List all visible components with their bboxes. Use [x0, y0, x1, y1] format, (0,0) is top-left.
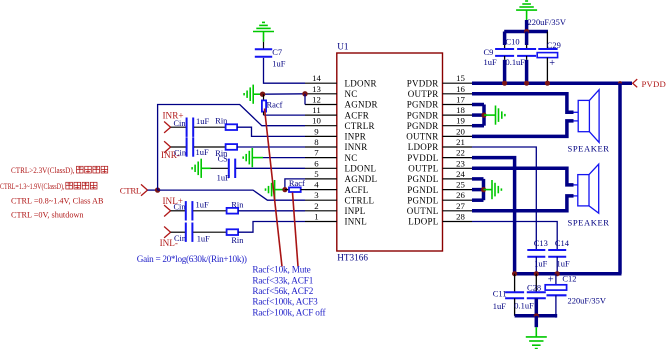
svg-text:CTRL =0V, shutdown: CTRL =0V, shutdown: [11, 211, 84, 220]
U1 pin 8 (INNR) stub: [305, 146, 337, 148]
capacitor C10 0.1uF: [525, 32, 529, 46]
wire pins 17/18/19 PGNDR tie bar: [472, 103, 484, 107]
svg-text:LDOPL: LDOPL: [408, 217, 438, 227]
svg-text:15: 15: [456, 73, 465, 83]
capacitor C29 220uF/35V (electrolytic): [546, 32, 548, 50]
svg-text:CTRL=1.3~1.9V(ClassD),: CTRL=1.3~1.9V(ClassD),: [0, 182, 65, 191]
svg-text:26: 26: [456, 190, 465, 200]
wire pin13 node down to pin 12 AGNDR: [304, 94, 306, 105]
svg-text:1uF: 1uF: [557, 258, 570, 268]
wire CTRL lower branch to pin 3 CTRLL: [158, 190, 305, 200]
ground (earth, top right): [516, 9, 537, 11]
svg-text:8: 8: [314, 137, 319, 147]
svg-text:CTRLL: CTRLL: [345, 195, 375, 205]
svg-text:C12: C12: [562, 273, 576, 283]
svg-text:11: 11: [312, 105, 320, 115]
svg-text:OUTPR: OUTPR: [408, 89, 439, 99]
capacitor C11 1uF: [514, 274, 516, 293]
capacitor Cin (INL-), 1uF: [185, 223, 187, 242]
wire bottom ground rail: [515, 314, 558, 318]
wire pin 16 OUTPR to speaker: [472, 94, 574, 113]
svg-text:5: 5: [314, 169, 319, 179]
capacitor Cin (INR-), 1uF: [186, 137, 188, 156]
U1 pin 17 (PGNDR) stub: [443, 104, 473, 106]
U1 pin 21 (LDOPR) stub: [443, 146, 473, 148]
svg-text:Racf>100k, ACF off: Racf>100k, ACF off: [252, 307, 326, 317]
U1 pin 25 (PGNDL) stub: [443, 189, 473, 191]
svg-text:CTRL: CTRL: [120, 185, 141, 195]
wire CTRL riser to top branch: [158, 105, 305, 191]
svg-text:OUTPL: OUTPL: [408, 164, 438, 174]
U1 pin 7 (NC) stub: [305, 157, 337, 159]
svg-text:CTRLR: CTRLR: [345, 121, 375, 131]
wire pins 24/25/26 PGNDL tie bar: [472, 177, 484, 181]
svg-text:C29: C29: [547, 40, 561, 50]
U1 pin 18 (PGNDR) stub: [443, 114, 473, 116]
wire Rin to pin 2 INPL: [238, 210, 305, 212]
svg-text:INPR: INPR: [345, 132, 367, 142]
svg-text:U1: U1: [337, 42, 349, 52]
svg-text:22: 22: [456, 148, 465, 158]
U1 pin 6 (LDONL) stub: [305, 167, 337, 169]
svg-text:3: 3: [314, 190, 319, 200]
svg-text:C13: C13: [534, 238, 548, 248]
wire C7 to pin 14 LDONR: [264, 58, 306, 83]
wire PGNDL ground stem: [484, 189, 493, 191]
wire INL- to Cin: [171, 231, 186, 233]
wire Rin to pin 8 INNR: [237, 146, 305, 148]
svg-text:PGNDR: PGNDR: [407, 100, 439, 110]
svg-text:Cin: Cin: [174, 119, 187, 128]
svg-text:28: 28: [456, 212, 465, 222]
U1 pin 23 (OUTPL) stub: [443, 167, 473, 169]
wire C7 ground stem: [263, 32, 265, 42]
svg-text:Racf<33k, ACF1: Racf<33k, ACF1: [252, 275, 313, 285]
svg-text:CTRL>2.3V(ClassD),: CTRL>2.3V(ClassD),: [11, 166, 75, 175]
port INL-: [164, 227, 171, 238]
svg-text:1uF: 1uF: [196, 200, 209, 210]
svg-text:PVDDL: PVDDL: [407, 153, 438, 163]
svg-text:Racf<56k, ACF2: Racf<56k, ACF2: [252, 286, 313, 296]
wire PGNDR ground stem: [484, 114, 496, 116]
speaker SPEAKER (right channel): [578, 100, 589, 131]
svg-text:25: 25: [456, 180, 465, 190]
svg-text:Racf: Racf: [267, 100, 283, 110]
node junction C9/PVDD: [502, 81, 507, 86]
svg-text:12: 12: [312, 95, 321, 105]
svg-text:220uF/35V: 220uF/35V: [528, 17, 566, 27]
wire PVDD vertical drop at right: [618, 83, 622, 274]
wire Cin to Rin (INL-): [193, 231, 226, 233]
svg-text:+: +: [548, 275, 554, 286]
wire Cin to Rin (INL+): [193, 210, 226, 212]
node junction pin13/pin12 tie: [302, 91, 307, 96]
svg-text:LDONR: LDONR: [345, 78, 377, 88]
svg-text:SPEAKER: SPEAKER: [568, 218, 610, 228]
ground (left of CS): [200, 159, 202, 178]
node junction Racf2: [282, 187, 287, 192]
svg-text:24: 24: [456, 169, 465, 179]
svg-text:PVDDR: PVDDR: [407, 78, 439, 88]
svg-text:1uF: 1uF: [484, 57, 497, 67]
svg-text:LDOPR: LDOPR: [408, 142, 439, 152]
svg-text:Cin: Cin: [174, 203, 187, 212]
wire INR- to Cin: [171, 146, 187, 148]
svg-text:0.1uF: 0.1uF: [506, 57, 526, 67]
U1 pin 9 (INPR) stub: [305, 135, 337, 137]
node junction bottom ground: [534, 313, 539, 318]
wire pin 28 LDOPL to C14: [472, 222, 557, 251]
ground (pin 7 NC): [251, 148, 253, 167]
node junction C13/C28 rail: [534, 271, 539, 276]
svg-text:2: 2: [314, 201, 318, 211]
wire CTRL horizontal to junction: [148, 189, 158, 191]
svg-text:14: 14: [312, 73, 321, 83]
U1 pin 3 (CTRLL) stub: [305, 199, 337, 201]
wire INL+ to Cin: [171, 210, 186, 212]
svg-text:ACFR: ACFR: [345, 110, 370, 120]
node junction PGNDL: [481, 187, 486, 192]
node junction at Racf1 top: [260, 92, 265, 97]
svg-text:CTRL =0.8~1.4V, Class AB: CTRL =0.8~1.4V, Class AB: [11, 197, 104, 206]
U1 pin 27 (OUTNL) stub: [443, 210, 473, 212]
wire Cin to Rin (INR+): [194, 126, 226, 128]
wire ground stem: [526, 10, 528, 20]
svg-text:C11: C11: [493, 288, 507, 298]
svg-text:Racf<100k, ACF3: Racf<100k, ACF3: [252, 297, 318, 307]
node CTRL junction: [155, 187, 160, 192]
U1 pin 13 (NC) stub: [305, 93, 337, 95]
U1 pin 2 (INPL) stub: [305, 210, 337, 212]
svg-text:ACFL: ACFL: [345, 185, 369, 195]
svg-text:19: 19: [456, 116, 465, 126]
wire PVDD bottom rail: [515, 272, 622, 276]
svg-text:NC: NC: [345, 89, 358, 99]
U1 pin 12 (AGNDR) stub: [305, 104, 337, 106]
node junction C11 rail: [512, 271, 517, 276]
svg-text:9: 9: [314, 126, 319, 136]
svg-text:C10: C10: [506, 36, 520, 46]
U1 pin 4 (ACFL) stub: [305, 189, 337, 191]
svg-text:1uF: 1uF: [196, 147, 209, 157]
svg-text:HT3166: HT3166: [337, 253, 368, 263]
leader line from Racf1 to note: [265, 109, 283, 267]
wire ground stem bottom: [535, 316, 539, 327]
svg-text:7: 7: [314, 148, 319, 158]
svg-text:+: +: [549, 58, 555, 69]
svg-text:OUTNL: OUTNL: [407, 206, 439, 216]
svg-text:220uF/35V: 220uF/35V: [568, 296, 606, 306]
capacitor C12 220uF/35V (electrolytic): [555, 274, 557, 285]
svg-text:1uF: 1uF: [197, 233, 210, 243]
capacitor C7: [255, 48, 272, 50]
port INL+: [164, 205, 171, 216]
svg-text:PGNDL: PGNDL: [407, 195, 438, 205]
svg-text:1uF: 1uF: [272, 58, 285, 68]
svg-text:INNR: INNR: [345, 142, 368, 152]
svg-text:INPL: INPL: [345, 206, 366, 216]
svg-text:C7: C7: [272, 47, 282, 57]
op-amp / class-D amplifier IC U1 HT3166 body: [337, 53, 443, 251]
wire pin 22 PVDDL down to bottom rail: [472, 158, 515, 274]
capacitor Cin (INR+), 1uF: [186, 118, 188, 137]
U1 pin 24 (PGNDL) stub: [443, 178, 473, 180]
U1 pin 22 (PVDDL) stub: [443, 157, 473, 159]
svg-text:16: 16: [456, 84, 465, 94]
wire ground stem to node: [275, 189, 285, 191]
svg-text:0.1uF: 0.1uF: [514, 301, 534, 311]
svg-text:1uF: 1uF: [493, 301, 506, 311]
ground (PGNDL): [491, 180, 493, 199]
port INR-: [164, 141, 171, 152]
wire CS to pin 6 LDONL: [236, 167, 305, 169]
svg-text:13: 13: [312, 84, 321, 94]
svg-text:1uF: 1uF: [196, 116, 209, 126]
capacitor C28 0.1uF: [535, 274, 537, 293]
wire top ground bus bar: [504, 30, 548, 34]
U1 pin 1 (INNL) stub: [305, 221, 337, 223]
U1 pin 20 (OUTNR) stub: [443, 135, 473, 137]
svg-text:1: 1: [314, 212, 318, 222]
U1 pin 11 (ACFR) stub: [305, 114, 337, 116]
svg-text:10: 10: [312, 116, 321, 126]
node junction PGNDR: [481, 113, 486, 118]
svg-text:23: 23: [456, 158, 465, 168]
capacitor C14 1uF: [548, 249, 566, 251]
svg-text:Cin: Cin: [174, 148, 187, 157]
node junction ground bus: [524, 29, 529, 34]
node junction C14/C12 rail: [555, 271, 560, 276]
speaker SPEAKER (left channel): [578, 175, 589, 206]
wire pin 21 LDOPR to C13: [472, 147, 536, 250]
wire pin 27 OUTNL to speaker: [472, 196, 574, 211]
wire node to pin 13 NC: [263, 93, 305, 95]
svg-text:Gain = 20*log(630k/(Rin+10k)): Gain = 20*log(630k/(Rin+10k)): [137, 254, 247, 264]
node junction C29/PVDD: [545, 81, 550, 86]
wire ground stem to node: [253, 93, 262, 95]
svg-text:SPEAKER: SPEAKER: [568, 143, 610, 153]
svg-text:18: 18: [456, 105, 465, 115]
svg-text:21: 21: [456, 137, 465, 147]
svg-text:OUTNR: OUTNR: [406, 132, 438, 142]
svg-text:AGNDR: AGNDR: [345, 100, 378, 110]
wire Rin to pin 9 INPR: [237, 127, 305, 136]
svg-text:C14: C14: [555, 238, 570, 248]
U1 pin 5 (AGNDL) stub: [305, 178, 337, 180]
ground (earth, above C7): [253, 31, 274, 33]
svg-text:PVDD: PVDD: [642, 79, 666, 89]
svg-text:AGNDL: AGNDL: [345, 174, 378, 184]
capacitor Cin (INL+), 1uF: [185, 201, 187, 220]
ground (left of Racf2): [274, 180, 276, 199]
svg-text:LDONL: LDONL: [345, 164, 377, 174]
wire Cin to Rin (INR-): [194, 146, 226, 148]
ground (PGNDR): [495, 106, 497, 125]
ground (earth, bottom): [526, 336, 547, 338]
wire INR+ to Cin: [171, 126, 187, 128]
U1 pin 26 (PGNDL) stub: [443, 199, 473, 201]
svg-text:17: 17: [456, 95, 465, 105]
leader line from Racf2 to note: [293, 193, 299, 267]
wire pin 23 OUTPL to speaker: [472, 168, 574, 185]
port PVDD: [633, 79, 638, 87]
node junction C10/PVDD: [524, 81, 529, 86]
wire Rin to pin 1 INNL: [238, 222, 305, 233]
svg-text:PGNDL: PGNDL: [407, 185, 438, 195]
U1 pin 14 (LDONR) stub: [305, 82, 337, 84]
svg-text:27: 27: [456, 201, 465, 211]
resistor Racf (R channel): [263, 94, 265, 100]
port INR+: [164, 122, 171, 133]
port CTRL: [141, 184, 148, 195]
svg-text:CS: CS: [218, 155, 229, 164]
U1 pin 28 (LDOPL) stub: [443, 221, 473, 223]
U1 pin 15 (PVDDR) stub: [443, 82, 473, 84]
ground (analog, left of Racf1): [252, 85, 254, 104]
U1 pin 16 (OUTPR) stub: [443, 93, 473, 95]
wire PVDD rail (pin 15 PVDDR): [472, 81, 632, 85]
wire Racf2 to pin 4 ACFL: [301, 189, 305, 191]
svg-text:1uF: 1uF: [217, 173, 230, 183]
U1 pin 10 (CTRLR) stub: [305, 125, 337, 127]
svg-text:INNL: INNL: [345, 217, 368, 227]
node junction PVDD drop: [618, 81, 622, 85]
svg-text:4: 4: [314, 180, 319, 190]
svg-text:Racf<10k, Mute: Racf<10k, Mute: [252, 265, 310, 275]
wire pin 20 OUTNR to speaker: [472, 121, 574, 136]
capacitor C13 1uF: [527, 249, 545, 251]
svg-text:Rin: Rin: [231, 236, 244, 245]
svg-text:PGNDR: PGNDR: [407, 121, 439, 131]
wire Racf1 to pin 11 ACFR: [264, 114, 306, 116]
svg-text:PGNDR: PGNDR: [407, 110, 439, 120]
svg-text:20: 20: [456, 126, 465, 136]
svg-text:PGNDL: PGNDL: [407, 174, 438, 184]
svg-text:C9: C9: [484, 47, 494, 57]
capacitor C9 1uF: [503, 32, 507, 46]
svg-text:C28: C28: [527, 283, 541, 293]
svg-text:NC: NC: [345, 153, 358, 163]
wire pin 5 AGNDL down to node: [285, 179, 305, 190]
wire ground to CS: [201, 167, 210, 169]
U1 pin 19 (PGNDR) stub: [443, 125, 473, 127]
wire pin7 ground stem: [252, 157, 263, 159]
svg-text:6: 6: [314, 158, 319, 168]
